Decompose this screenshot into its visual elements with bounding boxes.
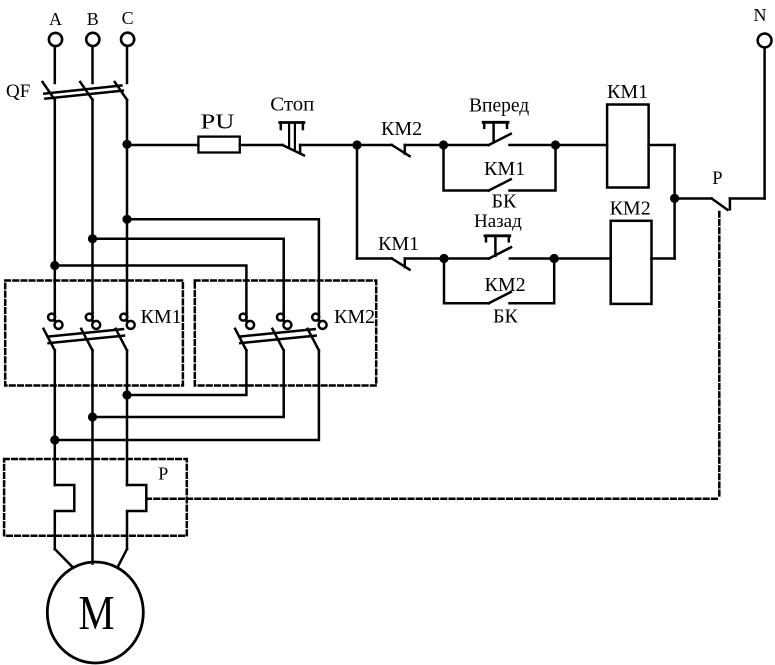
svg-text:БК: БК	[493, 306, 518, 328]
svg-text:КМ1: КМ1	[378, 233, 419, 255]
svg-text:М: М	[79, 585, 115, 640]
svg-text:КМ1: КМ1	[607, 81, 648, 103]
svg-text:Назад: Назад	[474, 211, 522, 232]
svg-text:Р: Р	[158, 463, 168, 483]
svg-text:Вперед: Вперед	[469, 96, 529, 117]
svg-text:КМ2: КМ2	[485, 274, 526, 296]
svg-text:КМ2: КМ2	[610, 198, 651, 220]
svg-text:КМ2: КМ2	[381, 118, 422, 140]
svg-text:Стоп: Стоп	[270, 94, 314, 116]
svg-text:N: N	[754, 5, 767, 25]
svg-text:КМ2: КМ2	[334, 306, 375, 328]
svg-text:БК: БК	[492, 191, 517, 213]
svg-text:КМ1: КМ1	[484, 158, 525, 180]
svg-text:КМ1: КМ1	[141, 306, 182, 328]
svg-text:Р: Р	[712, 169, 722, 189]
svg-text:QF: QF	[6, 81, 30, 102]
svg-text:A: A	[49, 9, 62, 29]
svg-text:PU: PU	[201, 110, 235, 134]
svg-text:B: B	[87, 9, 99, 29]
svg-text:C: C	[122, 8, 134, 28]
